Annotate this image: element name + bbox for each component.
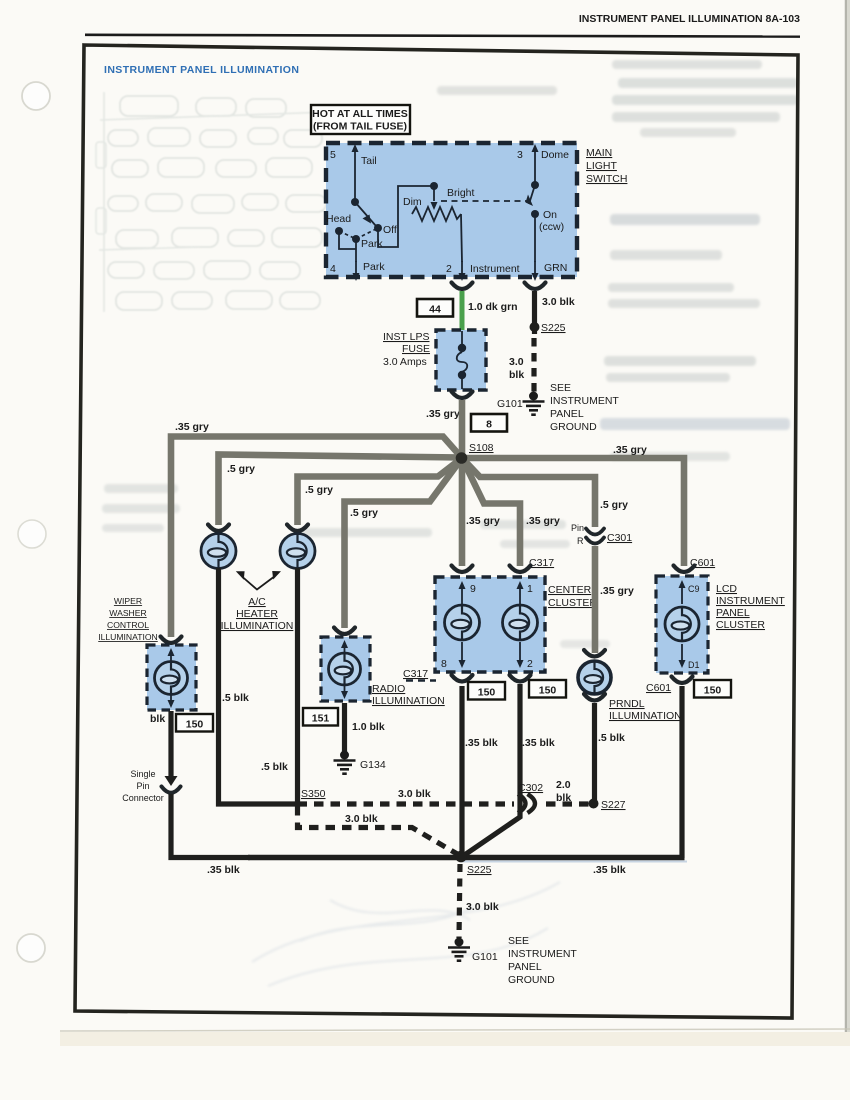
- dashed wire 3.0 blk S350 to S225: [298, 806, 460, 855]
- splice S225 (bottom): [455, 851, 467, 863]
- circuit number box 150 (LCD): [694, 680, 731, 698]
- svg-text:MAIN: MAIN: [586, 147, 612, 159]
- svg-text:.35 gry: .35 gry: [175, 421, 209, 433]
- svg-text:1.0 dk grn: 1.0 dk grn: [468, 301, 518, 313]
- svg-text:(FROM TAIL FUSE): (FROM TAIL FUSE): [313, 121, 407, 133]
- wire blk wiper down: [168, 711, 173, 777]
- svg-text:Single: Single: [130, 769, 155, 779]
- svg-text:PRNDL: PRNDL: [609, 698, 645, 710]
- wiper washer illumination box: [147, 645, 196, 710]
- svg-text:2.0: 2.0: [556, 779, 571, 791]
- svg-text:S108: S108: [469, 442, 494, 454]
- connector cup cluster pin 9: [452, 566, 473, 573]
- splice S108: [456, 452, 468, 464]
- svg-text:C317: C317: [529, 557, 554, 569]
- A/C heater lamp 2: [280, 534, 315, 569]
- svg-text:Off: Off: [383, 224, 397, 236]
- svg-text:.35 blk: .35 blk: [522, 737, 555, 749]
- dashed detent links: [339, 228, 378, 239]
- pin D1 arrow: [681, 644, 683, 662]
- radio lamp pin arrow top: [344, 646, 346, 654]
- svg-text:A/C: A/C: [248, 596, 266, 608]
- svg-text:3.0 blk: 3.0 blk: [466, 901, 499, 913]
- svg-text:.35 blk: .35 blk: [593, 864, 626, 876]
- svg-text:HOT AT ALL TIMES: HOT AT ALL TIMES: [312, 108, 408, 120]
- inline connector C302: [518, 794, 526, 813]
- switch terminal Park pin 4: [355, 261, 357, 275]
- svg-text:3: 3: [517, 149, 523, 161]
- circuit number box 150 (pin 2): [529, 680, 566, 698]
- svg-text:Dim: Dim: [403, 196, 422, 208]
- svg-text:.35 gry: .35 gry: [613, 444, 647, 456]
- svg-text:1.0 blk: 1.0 blk: [352, 721, 385, 733]
- inline connector C301: [586, 529, 604, 535]
- svg-text:blk: blk: [509, 369, 524, 381]
- wire .5 blk lamp2 down to S350: [295, 568, 300, 806]
- svg-text:.35 blk: .35 blk: [465, 737, 498, 749]
- connector cup above A/C lamp 2: [287, 525, 308, 532]
- svg-text:D1: D1: [688, 660, 700, 670]
- contact Head: [335, 227, 343, 235]
- wire .35 gry S108 down to cluster pin 9: [459, 458, 466, 566]
- svg-text:(ccw): (ccw): [539, 221, 564, 233]
- svg-text:3.0 Amps: 3.0 Amps: [383, 356, 427, 368]
- contact Park: [352, 235, 360, 243]
- switch arm dome-to-on: [529, 185, 535, 204]
- svg-text:PANEL: PANEL: [550, 408, 584, 420]
- dashed wire 2.0 blk C302 to S227: [546, 801, 590, 806]
- wire park down: [355, 239, 357, 262]
- svg-text:ILLUMINATION: ILLUMINATION: [98, 632, 158, 642]
- svg-text:Park: Park: [363, 261, 385, 273]
- svg-text:44: 44: [429, 304, 441, 316]
- switch terminal Tail: [354, 150, 356, 200]
- dashed wire 3.0 blk to ground: [531, 338, 536, 392]
- connector cup above PRNDL lamp: [584, 650, 605, 657]
- contact On (ccw): [531, 210, 539, 218]
- wire 1.0 blk radio to G134: [342, 703, 347, 752]
- svg-text:S225: S225: [467, 864, 492, 876]
- svg-text:8: 8: [441, 658, 447, 670]
- svg-text:.5 gry: .5 gry: [227, 463, 255, 475]
- svg-text:C9: C9: [688, 584, 700, 594]
- svg-text:Pin: Pin: [571, 523, 584, 533]
- wire .35 blk pin8 to S225: [459, 686, 464, 856]
- center cluster box: [435, 577, 545, 672]
- circuit number box 150 (wiper): [176, 714, 213, 732]
- svg-text:SWITCH: SWITCH: [586, 173, 627, 185]
- connector cup cluster pin 1: [510, 566, 531, 573]
- feed label box: HOT AT ALL TIMES (FROM TAIL FUSE): [311, 105, 410, 134]
- wire tail junction dot: [351, 198, 359, 206]
- svg-text:CONTROL: CONTROL: [107, 620, 149, 630]
- svg-text:CLUSTER: CLUSTER: [716, 619, 765, 631]
- dashed wire 3.0 blk S350 to C302: [298, 801, 515, 806]
- svg-text:Park: Park: [361, 238, 383, 250]
- page bottom edge band: [60, 1032, 850, 1046]
- svg-text:3.0 blk: 3.0 blk: [345, 813, 378, 825]
- connector cup below fuse: [452, 392, 473, 399]
- svg-text:8: 8: [486, 419, 492, 431]
- wire 1.0 dk grn: [460, 291, 465, 331]
- single pin connector symbol: [165, 776, 178, 786]
- node bright dot: [430, 182, 438, 190]
- svg-text:On: On: [543, 209, 557, 221]
- svg-text:blk: blk: [150, 713, 165, 725]
- svg-text:PANEL: PANEL: [508, 961, 542, 973]
- wiper lamp bulb: [155, 662, 188, 695]
- svg-text:S227: S227: [601, 799, 626, 811]
- connector cup above radio lamp: [334, 628, 355, 635]
- svg-text:Head: Head: [326, 213, 351, 225]
- ground G134: [340, 751, 349, 760]
- wire rheostat to instrument pin: [461, 214, 462, 262]
- svg-text:1: 1: [527, 583, 533, 595]
- svg-text:G134: G134: [360, 759, 386, 771]
- svg-text:Pin: Pin: [136, 781, 149, 791]
- wire off-to-rheostat: [378, 186, 434, 247]
- svg-text:INSTRUMENT PANEL ILLUMINATION: INSTRUMENT PANEL ILLUMINATION: [104, 64, 299, 76]
- switch terminal Dome: [534, 150, 536, 184]
- svg-text:4: 4: [330, 263, 336, 275]
- fuse INST LPS box: [436, 330, 486, 390]
- svg-text:3.0 blk: 3.0 blk: [542, 296, 575, 308]
- svg-text:RADIO: RADIO: [372, 683, 405, 695]
- connector cup below GRN pin: [525, 283, 546, 290]
- LCD instrument panel cluster box: [656, 576, 708, 673]
- connector cup below PRNDL lamp: [584, 694, 605, 701]
- connector cup below pin D1: [672, 677, 693, 684]
- svg-text:Connector: Connector: [122, 793, 164, 803]
- wire .35 gry fuse to S108: [459, 400, 466, 458]
- header rule: [85, 35, 800, 37]
- wire .5 blk lamp1 down: [219, 568, 296, 804]
- connector cup below pin 2: [452, 283, 473, 290]
- wire branch right .35 gry to cluster pin 1: [462, 458, 520, 566]
- dashed bright feed line: [441, 200, 529, 202]
- svg-text:GROUND: GROUND: [508, 974, 555, 986]
- svg-text:LCD: LCD: [716, 583, 737, 595]
- svg-text:ILLUMINATION: ILLUMINATION: [609, 710, 682, 722]
- wire branch left .5 gry to radio: [345, 458, 463, 628]
- pin 8 arrow: [461, 642, 463, 662]
- cluster bulb 1: [445, 605, 480, 640]
- svg-text:G101: G101: [497, 398, 523, 410]
- svg-text:G101: G101: [472, 951, 498, 963]
- contact Off: [374, 224, 382, 232]
- svg-text:.5 gry: .5 gry: [350, 507, 378, 519]
- radio illumination box: [321, 637, 370, 701]
- switch terminal Instrument pin 2: [461, 261, 463, 275]
- connector callout 8: [471, 414, 507, 432]
- connector cup LCD pin C9: [674, 566, 695, 573]
- svg-text:150: 150: [186, 719, 204, 731]
- svg-text:ILLUMINATION: ILLUMINATION: [221, 620, 294, 632]
- svg-text:INSTRUMENT: INSTRUMENT: [716, 595, 785, 607]
- fuse element: [461, 331, 463, 347]
- svg-text:151: 151: [312, 713, 330, 725]
- svg-text:HEATER: HEATER: [236, 608, 278, 620]
- svg-text:WASHER: WASHER: [109, 608, 146, 618]
- connector cup above wiper lamp: [161, 637, 182, 644]
- switch terminal GRN: [534, 261, 536, 275]
- radio lamp bulb: [329, 653, 361, 685]
- svg-text:ILLUMINATION: ILLUMINATION: [372, 695, 445, 707]
- splice S225 (upper): [530, 322, 540, 332]
- pin 9 arrow: [461, 587, 463, 605]
- svg-text:LIGHT: LIGHT: [586, 160, 618, 172]
- wire blk LCD down to bottom rail: [679, 686, 684, 858]
- bottom rail wire .35 blk: [248, 855, 685, 861]
- ground G101 (bottom): [455, 938, 464, 947]
- svg-text:C302: C302: [518, 782, 543, 794]
- svg-text:PANEL: PANEL: [716, 607, 750, 619]
- LCD bulb: [665, 607, 699, 641]
- wire branch left .5 gry to A/C lamp 1: [219, 455, 463, 526]
- svg-text:9: 9: [470, 583, 476, 595]
- punch hole middle: [18, 520, 46, 548]
- svg-text:.35 gry: .35 gry: [526, 515, 560, 527]
- svg-text:.35 blk: .35 blk: [207, 864, 240, 876]
- svg-text:FUSE: FUSE: [402, 343, 430, 355]
- wire .35 gry C301 to PRNDL: [592, 546, 599, 653]
- svg-text:.35 gry: .35 gry: [600, 585, 634, 597]
- svg-text:.5 blk: .5 blk: [598, 732, 625, 744]
- switch arm tail-to-off: [355, 202, 376, 226]
- svg-text:C601: C601: [646, 682, 671, 694]
- wire 3.0 blk from GRN: [532, 291, 537, 334]
- svg-text:CLUSTER: CLUSTER: [548, 597, 597, 609]
- svg-text:INSTRUMENT: INSTRUMENT: [550, 395, 619, 407]
- wire blk to bottom rail: [171, 794, 250, 858]
- wire head loop: [339, 231, 356, 249]
- svg-text:C317: C317: [403, 668, 428, 680]
- pin C9 arrow: [681, 586, 683, 604]
- svg-text:2: 2: [527, 658, 533, 670]
- punch hole bottom: [17, 934, 45, 962]
- svg-text:.5 blk: .5 blk: [261, 761, 288, 773]
- circuit number box 151: [303, 708, 338, 726]
- wire on to GRN pin: [534, 214, 536, 262]
- svg-text:SEE: SEE: [550, 382, 571, 394]
- svg-text:R: R: [577, 536, 584, 546]
- svg-text:3.0: 3.0: [509, 356, 524, 368]
- wire branch right .35 gry to LCD cluster: [462, 458, 684, 566]
- svg-text:INSTRUMENT: INSTRUMENT: [508, 948, 577, 960]
- connector cup below pin 8: [452, 675, 473, 682]
- rheostat resistor element: [412, 207, 461, 221]
- circuit number box 150 (pin 8): [468, 682, 505, 700]
- A/C heater illumination label with arrows: [242, 576, 275, 590]
- cluster bulb 2: [503, 605, 538, 640]
- ghost bleed-through artwork (decorative): [96, 92, 330, 312]
- svg-text:GRN: GRN: [544, 262, 567, 274]
- A/C heater lamp 1: [201, 534, 236, 569]
- svg-text:150: 150: [704, 685, 722, 697]
- punch hole top: [22, 82, 50, 110]
- connector callout 44: [417, 299, 453, 317]
- wiper lamp pin arrow bottom: [170, 694, 172, 702]
- page border frame: [75, 45, 798, 1018]
- wire .35 blk pin2 to S225: [463, 684, 520, 856]
- svg-text:S350: S350: [301, 788, 326, 800]
- svg-text:Bright: Bright: [447, 187, 475, 199]
- connector cup above A/C lamp 1: [208, 525, 229, 532]
- svg-text:3.0 blk: 3.0 blk: [398, 788, 431, 800]
- svg-text:SEE: SEE: [508, 935, 529, 947]
- PRNDL lamp bulb: [578, 661, 611, 694]
- svg-text:.35 gry: .35 gry: [426, 408, 460, 420]
- svg-text:CENTER: CENTER: [548, 584, 592, 596]
- svg-text:150: 150: [478, 687, 496, 699]
- svg-text:C301: C301: [607, 532, 632, 544]
- svg-text:Dome: Dome: [541, 149, 569, 161]
- svg-text:S225: S225: [541, 322, 566, 334]
- wire branch left .5 gry to A/C lamp 2: [298, 458, 463, 525]
- svg-text:.5 gry: .5 gry: [600, 499, 628, 511]
- connector cup below pin 2: [510, 675, 531, 682]
- svg-text:INSTRUMENT PANEL ILLUMINATION: INSTRUMENT PANEL ILLUMINATION 8A-103: [579, 13, 800, 25]
- wire branch upper-left .35 gry: [171, 437, 462, 638]
- svg-text:5: 5: [330, 149, 336, 161]
- svg-text:.5 gry: .5 gry: [305, 484, 333, 496]
- wire .5 blk PRNDL to S227: [592, 703, 597, 803]
- wiper lamp pin arrow top: [170, 654, 172, 662]
- rheostat wiper arrow: [433, 186, 435, 201]
- svg-text:.35 gry: .35 gry: [466, 515, 500, 527]
- svg-text:2: 2: [446, 263, 452, 275]
- svg-text:Instrument: Instrument: [470, 263, 520, 275]
- svg-text:.5 blk: .5 blk: [222, 692, 249, 704]
- radio lamp pin arrow bottom: [344, 685, 346, 693]
- svg-text:150: 150: [539, 685, 557, 697]
- svg-text:WIPER: WIPER: [114, 596, 142, 606]
- pin 1 arrow: [519, 587, 521, 605]
- main light switch box: [326, 143, 577, 277]
- pin 2 arrow: [519, 642, 521, 662]
- splice S227: [589, 799, 599, 809]
- dashed wire 3.0 blk S225 to G101: [459, 864, 460, 938]
- ground G101 (upper): [529, 392, 538, 401]
- page right edge: [845, 0, 848, 1032]
- svg-text:Tail: Tail: [361, 155, 377, 167]
- wire branch right .5 gry to C301: [462, 458, 595, 527]
- dome junction dot: [531, 181, 539, 189]
- svg-text:GROUND: GROUND: [550, 421, 597, 433]
- svg-text:INST LPS: INST LPS: [383, 331, 430, 343]
